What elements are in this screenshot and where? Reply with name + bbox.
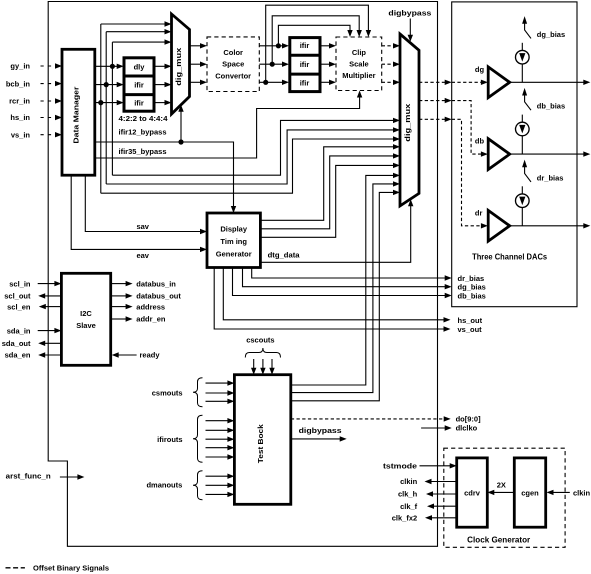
wire scl_en	[39, 304, 62, 309]
wire branch vertical row 1	[111, 42, 113, 175]
svg-text:4:2:2 to 4:4:4: 4:2:2 to 4:4:4	[119, 114, 169, 123]
svg-text:rcr_in: rcr_in	[9, 97, 30, 106]
svg-text:hs_in: hs_in	[10, 113, 30, 122]
current source db	[516, 122, 530, 136]
wire scl_out	[38, 293, 61, 298]
svg-text:dg: dg	[475, 65, 485, 74]
wire databus_out	[111, 293, 133, 298]
Data Manager block	[62, 49, 95, 175]
Three Channel DACs box	[452, 2, 577, 307]
label clkin	[400, 477, 418, 486]
svg-text:digbypass: digbypass	[299, 426, 342, 435]
wire DM output row 2	[95, 82, 124, 87]
wire db current-source drop	[521, 136, 523, 154]
svg-text:vs_out: vs_out	[458, 325, 483, 334]
svg-text:scl_out: scl_out	[4, 292, 31, 301]
wire ifir2 output 1 to CSM	[320, 43, 336, 48]
wire DTG output 2 to dig_mux2	[260, 153, 400, 229]
wire clk_fx2	[425, 515, 457, 520]
svg-text:dg_bias: dg_bias	[458, 283, 486, 292]
wire CSC bypass loop 1 to Clip Scale Multiplier top	[278, 25, 352, 46]
mux U1 dig_mux	[172, 14, 190, 114]
junction dot ifir12_bypass	[178, 139, 183, 144]
svg-text:ifirouts: ifirouts	[157, 435, 182, 444]
svg-text:address: address	[136, 302, 165, 311]
junction dot row 3	[98, 100, 103, 105]
svg-text:scl_in: scl_in	[9, 279, 31, 288]
svg-text:Color: Color	[223, 48, 243, 57]
svg-text:clkin: clkin	[400, 477, 418, 486]
svg-text:clk_fx2: clk_fx2	[392, 514, 417, 523]
svg-text:ifir: ifir	[300, 79, 310, 88]
wire address	[111, 304, 133, 309]
label do[9:0]	[456, 415, 482, 424]
wire dmanouts arrow 2	[206, 483, 235, 488]
wire cscouts arrow 2	[260, 359, 265, 375]
svg-text:Data Manager: Data Manager	[72, 87, 81, 144]
label addr_en	[136, 315, 166, 324]
wire addr_en	[111, 316, 133, 321]
label dg_bias	[458, 283, 486, 292]
svg-text:Generator: Generator	[216, 249, 252, 258]
wire scl_in	[38, 281, 62, 286]
svg-text:db_bias: db_bias	[537, 102, 565, 111]
divider ifir2 a	[290, 54, 320, 57]
wire ifirouts arrow 1	[206, 418, 235, 423]
divider ifir/ifir	[124, 93, 154, 96]
svg-text:dig_mux: dig_mux	[403, 103, 412, 142]
wire under-route row 2 to dig_mux2	[106, 127, 400, 184]
op-amp db DAC	[488, 139, 510, 170]
svg-text:Space: Space	[222, 60, 244, 69]
brace dmanouts	[193, 471, 203, 500]
svg-text:tstmode: tstmode	[383, 462, 417, 471]
ifir2 cell label 3	[300, 79, 310, 88]
svg-text:Clip: Clip	[352, 48, 367, 57]
svg-text:bcb_in: bcb_in	[6, 79, 31, 88]
svg-text:ifir: ifir	[300, 60, 310, 69]
ifir2 cell label 2	[300, 60, 310, 69]
label dr	[475, 208, 483, 217]
svg-text:vs_in: vs_in	[11, 130, 31, 139]
wire dig_mux2 output dg (dashed)	[419, 80, 488, 85]
Clip Scale Multiplier block	[336, 37, 382, 91]
label sda_out	[2, 339, 31, 348]
label sda_en	[5, 351, 31, 360]
wire digbypass TB	[291, 436, 347, 441]
ifir cell label 2	[134, 98, 144, 107]
label address	[136, 302, 165, 311]
wire sav	[85, 175, 207, 234]
svg-text:ifir12_bypass: ifir12_bypass	[119, 128, 167, 137]
wire Test Block output 1 to dig_mux2	[291, 173, 400, 385]
wire csmouts arrow 2	[206, 390, 235, 395]
label scl_en	[7, 302, 31, 311]
wire dtg_data to dig_mux2 select	[260, 199, 413, 262]
svg-text:cdrv: cdrv	[464, 489, 481, 498]
wire vs_in (dashed input)	[41, 132, 63, 137]
svg-text:gy_in: gy_in	[10, 62, 30, 71]
wire dr bias stub	[521, 186, 523, 194]
svg-text:clk_h: clk_h	[398, 490, 418, 499]
svg-text:sda_in: sda_in	[7, 326, 31, 335]
wire digbypass into dig_mux2	[408, 19, 413, 42]
wire dig_mux2 output dr (dashed)	[419, 117, 488, 229]
svg-text:sda_en: sda_en	[5, 351, 31, 360]
current source dg	[516, 50, 530, 64]
svg-text:Three Channel DACs: Three Channel DACs	[472, 252, 548, 261]
label ifirouts	[157, 435, 182, 444]
cdrv block	[457, 458, 488, 527]
brace csmouts	[193, 378, 203, 407]
label eav	[136, 251, 149, 260]
label ifir12_bypass	[119, 128, 167, 137]
input label rcr_in	[9, 97, 30, 106]
svg-text:Tim ing: Tim ing	[220, 237, 247, 246]
wire CSC output row 2	[259, 62, 289, 67]
svg-text:db: db	[475, 137, 485, 146]
wire CSC bypass loop 3 to Clip Scale Multiplier top	[266, 5, 371, 82]
wire eav	[71, 175, 207, 252]
label scl_out	[4, 292, 31, 301]
svg-text:Convertor: Convertor	[215, 72, 251, 81]
junction dot CSC output 3	[263, 80, 268, 85]
wire dr output	[510, 223, 591, 228]
wire csmouts arrow 1	[206, 380, 235, 385]
bias arrow dg_bias	[522, 16, 531, 38]
wire ifirouts arrow 2	[206, 428, 235, 433]
wire ifir35_bypass	[95, 91, 363, 159]
wire CSM output 3 (dashed) to dig_mux2	[382, 80, 400, 85]
label hs_out	[458, 316, 483, 325]
svg-text:Test Bock: Test Bock	[256, 423, 265, 463]
label clk_fx2	[392, 514, 417, 523]
label db_bias	[537, 102, 565, 111]
svg-text:dr_bias: dr_bias	[458, 274, 485, 283]
brace cscouts	[245, 348, 280, 358]
wire db_bias	[233, 268, 452, 299]
svg-text:ready: ready	[140, 351, 161, 360]
svg-text:dg_bias: dg_bias	[537, 30, 565, 39]
wire branch vertical row 3	[100, 24, 102, 193]
wire sda_en	[38, 352, 61, 357]
label dr_bias	[458, 274, 485, 283]
wire db bias stub	[521, 115, 523, 123]
wire DM output row 3	[95, 100, 124, 105]
svg-text:dr: dr	[475, 208, 483, 217]
label clk_f	[400, 502, 418, 511]
wire hs_out	[223, 268, 450, 323]
label sda_in	[7, 326, 31, 335]
svg-text:csmouts: csmouts	[152, 389, 183, 398]
svg-text:Offset Binary Signals: Offset Binary Signals	[33, 564, 109, 573]
svg-text:dly: dly	[134, 63, 146, 72]
wire bypass to mux1 input row 3	[101, 21, 172, 26]
wire dg bias stub	[521, 43, 523, 51]
wire dlclko	[421, 425, 452, 430]
wire Test Block output 3 to dig_mux2	[291, 190, 400, 401]
label sav	[136, 222, 149, 231]
wire clk_h	[426, 491, 457, 496]
svg-text:scl_en: scl_en	[7, 302, 31, 311]
svg-text:cgen: cgen	[521, 489, 539, 498]
label databus_out	[136, 292, 181, 301]
svg-text:eav: eav	[136, 251, 149, 260]
svg-text:arst_func_n: arst_func_n	[6, 471, 51, 480]
chip boundary	[48, 2, 437, 547]
wire CSM output 1 (dashed) to dig_mux2	[382, 43, 400, 48]
wire ready	[112, 352, 137, 357]
Clock Generator box	[444, 448, 565, 547]
wire under-route row 3 to dig_mux2	[101, 136, 400, 193]
label Three Channel DACs	[472, 252, 548, 261]
svg-text:I2C: I2C	[80, 309, 92, 318]
wire tstmode	[420, 463, 457, 468]
dly-ifir group box	[124, 58, 154, 111]
wire dr_bias	[252, 268, 452, 281]
label 2X	[497, 481, 506, 490]
svg-text:hs_out: hs_out	[458, 316, 483, 325]
wire vs_out	[214, 268, 450, 332]
wire ifirouts arrow 5	[206, 454, 235, 459]
wire arst_func_n	[60, 474, 85, 479]
Color Space Convertor block	[207, 37, 259, 92]
wire gy_in (dashed input)	[41, 63, 63, 68]
svg-text:Scale: Scale	[349, 60, 369, 69]
current source dr	[516, 194, 530, 208]
op-amp dr DAC	[488, 210, 510, 241]
label arst_func_n	[6, 471, 51, 480]
wire dig_mux1 output 3 to Color Space Convertor	[190, 80, 208, 85]
label clk_h	[398, 490, 418, 499]
wire DTG output 3 to dig_mux2	[260, 163, 400, 238]
wire databus_in	[111, 281, 133, 286]
svg-text:ifir35_bypass: ifir35_bypass	[119, 147, 167, 156]
label dlclko	[456, 424, 478, 433]
label dmanouts	[146, 481, 182, 490]
wire dmanouts arrow 3	[206, 492, 235, 497]
svg-text:Multiplier: Multiplier	[342, 71, 375, 80]
wire ifir2 output 2 to CSM	[320, 62, 336, 67]
dly cell label	[134, 63, 146, 72]
label digbypass TB	[299, 426, 342, 435]
svg-text:db_bias: db_bias	[458, 292, 486, 301]
wire csmouts arrow 3	[206, 399, 235, 404]
label cscouts	[246, 336, 274, 345]
wire dg_bias	[243, 268, 452, 290]
wire bcb_in (dashed input)	[41, 81, 63, 86]
label csmouts	[152, 389, 183, 398]
wire cscouts arrow 1	[251, 359, 256, 375]
label digbypass top	[388, 9, 431, 18]
label tstmode	[383, 462, 417, 471]
wire ifir12_bypass branch to mux1 select	[178, 105, 183, 142]
wire DTG output 1 to dig_mux2	[260, 144, 400, 220]
ifir cell label 1	[134, 81, 144, 90]
wire rcr_in (dashed input)	[41, 98, 63, 103]
svg-text:databus_out: databus_out	[136, 292, 181, 301]
svg-text:sda_out: sda_out	[2, 339, 31, 348]
label scl_in	[9, 279, 31, 288]
wire dmanouts arrow 1	[206, 474, 235, 479]
wire ifir12_bypass	[95, 142, 236, 213]
wire Test Block output 2 to dig_mux2	[291, 181, 400, 392]
bias arrow db_bias	[522, 88, 531, 110]
svg-text:cscouts: cscouts	[246, 336, 274, 345]
svg-text:sav: sav	[136, 222, 149, 231]
svg-text:Display: Display	[220, 225, 248, 234]
svg-text:clkin: clkin	[573, 489, 591, 498]
label 4:2:2 to 4:4:4	[119, 114, 169, 123]
svg-text:dlclko: dlclko	[456, 424, 478, 433]
wire clkin external	[547, 490, 570, 495]
label databus_in	[136, 279, 176, 288]
svg-text:dtg_data: dtg_data	[268, 251, 301, 260]
wire cgen to cdrv	[487, 490, 514, 495]
legend label Offset Binary Signals	[33, 564, 109, 573]
wire ifir2 output 3 to CSM	[320, 80, 336, 85]
wire dig_mux1 output 1 to Color Space Convertor	[190, 43, 208, 48]
ifir group2 box	[290, 38, 320, 92]
Display Timing Generator block	[207, 213, 260, 268]
wire clk_f	[427, 504, 457, 509]
svg-text:ifir: ifir	[134, 81, 144, 90]
label vs_out	[458, 325, 483, 334]
label ready	[140, 351, 161, 360]
label dg_bias	[537, 30, 565, 39]
divider ifir2 b	[290, 73, 320, 76]
svg-text:digbypass: digbypass	[388, 9, 431, 18]
wire bypass to mux1 input row 1	[112, 39, 171, 44]
svg-text:addr_en: addr_en	[136, 315, 166, 324]
Test Block	[234, 375, 290, 505]
label ifir35_bypass	[119, 147, 167, 156]
ifir2 cell label 1	[300, 41, 310, 50]
label dg	[475, 65, 485, 74]
cgen block	[514, 458, 545, 527]
label Clock Generator	[467, 536, 530, 545]
wire CSC output row 1	[259, 43, 289, 48]
wire dig_mux1 output 2 to Color Space Convertor	[190, 62, 208, 67]
svg-text:ifir: ifir	[134, 98, 144, 107]
svg-text:Clock Generator: Clock Generator	[467, 536, 530, 545]
junction dot CSC output 2	[270, 62, 275, 67]
input label hs_in	[10, 113, 30, 122]
input label gy_in	[10, 62, 30, 71]
mux U2 dig_mux	[400, 34, 419, 206]
divider dly/ifir	[124, 75, 154, 78]
wire CSC bypass loop 2 to Clip Scale Multiplier top	[272, 16, 362, 64]
svg-text:dr_bias: dr_bias	[537, 173, 564, 182]
wire dg current-source drop	[521, 64, 523, 82]
svg-text:databus_in: databus_in	[136, 279, 176, 288]
wire bypass to mux1 input row 2	[106, 29, 171, 34]
wire dly-group output 1 to dig_mux1	[154, 64, 171, 69]
wire clkin	[425, 479, 457, 484]
wire CSM output 2 (dashed) to dig_mux2	[382, 62, 400, 67]
svg-text:dmanouts: dmanouts	[146, 481, 182, 490]
wire dly-group output 3 to dig_mux1	[154, 100, 171, 105]
wire do[9:0] (dashed)	[291, 416, 451, 421]
wire dig_mux2 output db (dashed)	[419, 98, 488, 157]
label dtg_data	[268, 251, 301, 260]
legend dashed sample	[6, 567, 25, 569]
svg-text:ifir: ifir	[300, 41, 310, 50]
svg-text:clk_f: clk_f	[400, 502, 418, 511]
I2C Slave block	[61, 273, 110, 365]
input label bcb_in	[6, 79, 31, 88]
label db	[475, 137, 485, 146]
label clkin external	[573, 489, 591, 498]
wire cscouts arrow 3	[269, 359, 274, 375]
wire DM output row 1	[95, 64, 124, 69]
label dr_bias	[537, 173, 564, 182]
svg-text:dig_mux: dig_mux	[174, 47, 183, 86]
wire branch vertical row 2	[105, 32, 107, 184]
wire CSC output row 3	[259, 80, 289, 85]
junction dot row 1	[110, 64, 115, 69]
op-amp dg DAC	[488, 67, 510, 98]
svg-text:do[9:0]: do[9:0]	[456, 415, 482, 424]
junction dot CSC output 1	[276, 43, 281, 48]
brace ifirouts	[193, 415, 203, 462]
wire hs_in (dashed input)	[41, 115, 63, 120]
wire sda_out	[38, 341, 61, 346]
bias arrow dr_bias	[522, 160, 531, 182]
label db_bias	[458, 292, 486, 301]
wire sda_in	[38, 328, 62, 333]
wire dr current-source drop	[521, 207, 523, 225]
wire dg output	[510, 80, 591, 85]
svg-text:Slave: Slave	[76, 321, 96, 330]
svg-text:2X: 2X	[497, 481, 506, 490]
wire ifirouts arrow 4	[206, 445, 235, 450]
wire under-route row 1 to dig_mux2	[112, 118, 400, 176]
input label vs_in	[11, 130, 31, 139]
wire dly-group output 2 to dig_mux1	[154, 82, 171, 87]
wire db output	[510, 151, 591, 156]
wire ifirouts arrow 3	[206, 437, 235, 442]
junction dot row 2	[104, 82, 109, 87]
